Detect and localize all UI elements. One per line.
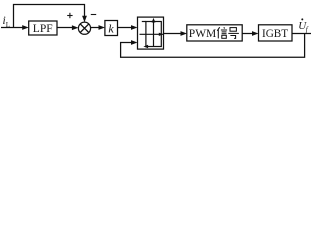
wire hysteresis to PWM xyxy=(164,33,184,35)
wire feedback into hysteresis xyxy=(121,34,305,58)
svg-text:PWM: PWM xyxy=(189,28,216,40)
arrowhead into IGBT xyxy=(252,31,259,36)
summer S1 xyxy=(78,22,90,34)
block hysteresis comparator xyxy=(138,17,164,49)
wire input iL xyxy=(1,27,25,29)
arrowhead into PWM xyxy=(181,31,188,36)
block PWM signal xyxy=(187,25,242,41)
svg-text:LPF: LPF xyxy=(33,23,53,35)
wire k to hysteresis xyxy=(118,27,135,29)
svg-text:L: L xyxy=(6,21,10,29)
wire LPF to summer xyxy=(57,27,75,29)
arrowhead up on loop xyxy=(152,18,156,23)
block IGBT xyxy=(259,25,293,41)
wire top feedforward branch xyxy=(14,5,85,28)
wire IGBT output xyxy=(292,33,311,35)
arrowhead into LPF xyxy=(22,25,29,30)
arrowhead into summer xyxy=(72,25,79,30)
axis xyxy=(140,33,164,35)
glyph xin xyxy=(217,27,227,38)
svg-text:k: k xyxy=(108,21,114,35)
arrowhead into k xyxy=(99,25,106,30)
wire PWM to IGBT xyxy=(242,33,255,35)
block LPF xyxy=(29,21,57,35)
arrowhead into hysteresis upper xyxy=(131,25,138,30)
node Uf output label xyxy=(298,18,309,33)
label minus xyxy=(91,14,96,16)
arrowhead right on axis xyxy=(159,33,163,36)
arrowhead into hysteresis lower xyxy=(131,40,138,45)
hysteresis loop xyxy=(146,22,161,47)
glyph hao xyxy=(228,28,239,39)
block k xyxy=(105,21,118,36)
svg-text:IGBT: IGBT xyxy=(262,28,288,40)
arrowhead down into summer xyxy=(82,16,87,22)
label plus xyxy=(67,13,72,18)
node iL label xyxy=(3,15,11,29)
wire summer to k xyxy=(91,27,102,29)
arrowhead left on loop bottom xyxy=(143,45,148,49)
